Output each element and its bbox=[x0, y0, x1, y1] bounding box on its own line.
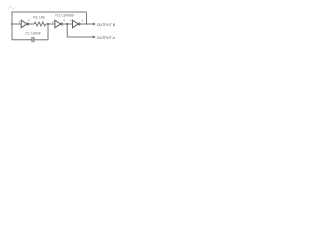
wire: output A horizontal bbox=[67, 36, 94, 38]
svg-text:OUTPUT B: OUTPUT B bbox=[97, 23, 116, 27]
wire: node1 vertical down bbox=[47, 24, 49, 40]
wire: inverter 2 to inverter 3 bbox=[63, 23, 73, 25]
faint caption text top-left bbox=[7, 6, 17, 10]
node 2 junction bbox=[66, 23, 68, 25]
wire: capacitor to node1 vertical bbox=[34, 39, 48, 41]
node: left T junction bbox=[11, 23, 13, 25]
inverter IC1b bbox=[55, 20, 61, 28]
svg-text:OUTPUT A: OUTPUT A bbox=[97, 36, 116, 40]
wire: left feedback bbox=[11, 12, 13, 41]
arrowhead output B bbox=[93, 23, 96, 26]
svg-text:R1 10k: R1 10k bbox=[33, 15, 45, 19]
wire: inverter 1 to resistor bbox=[29, 23, 34, 25]
resistor R1 zigzag bbox=[34, 22, 46, 26]
wire: right feedback bbox=[86, 12, 88, 24]
node 1 junction bbox=[47, 23, 49, 25]
svg-text:IC1 CD4069: IC1 CD4069 bbox=[55, 14, 73, 18]
bubble IC1b bbox=[61, 23, 63, 25]
wire: bottom left to capacitor bbox=[12, 39, 32, 41]
wire: input row to inverter 1 bbox=[12, 23, 21, 25]
bubble IC1c bbox=[78, 23, 80, 25]
capacitor C1 plates bbox=[32, 37, 34, 42]
wire: resistor to node1 bbox=[46, 23, 55, 25]
wire: node2 vertical down bbox=[66, 24, 68, 37]
bubble IC1a bbox=[27, 23, 29, 25]
wire: top feedback bbox=[12, 11, 87, 13]
svg-text:C1 100nF: C1 100nF bbox=[25, 32, 42, 36]
inverter IC1c bbox=[73, 20, 79, 28]
wire: inverter 3 to output B bbox=[80, 23, 94, 25]
arrowhead output A bbox=[93, 36, 96, 39]
node: output B junction bbox=[86, 23, 88, 25]
inverter IC1a bbox=[21, 20, 27, 28]
